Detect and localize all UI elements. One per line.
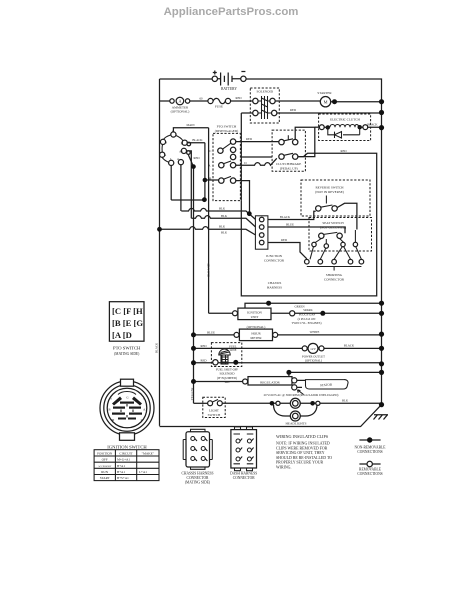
svg-text:60: 60 (200, 97, 204, 101)
svg-text:(MATING SIDE): (MATING SIDE) (114, 352, 140, 356)
svg-text:CLUTCH/BRAKE: CLUTCH/BRAKE (276, 162, 301, 166)
svg-text:CHASSIS HARNESS: CHASSIS HARNESS (181, 472, 213, 476)
svg-text:"MAKE": "MAKE" (142, 452, 155, 456)
svg-text:BLUE: BLUE (286, 222, 294, 226)
svg-text:RED: RED (290, 108, 297, 112)
svg-text:OFF: OFF (102, 458, 108, 462)
svg-text:B: B (165, 141, 167, 145)
svg-text:PLUGS GAP: PLUGS GAP (299, 312, 316, 316)
svg-text:SHOULD BE RE-INSTALLED TO: SHOULD BE RE-INSTALLED TO (276, 456, 332, 460)
svg-text:START: START (100, 476, 110, 480)
svg-text:NON-REMOVABLE: NON-REMOVABLE (355, 445, 387, 449)
svg-text:RED: RED (236, 96, 243, 100)
svg-text:LIGHT: LIGHT (209, 409, 219, 413)
svg-text:HEADLIGHTS: HEADLIGHTS (286, 422, 307, 426)
svg-text:SPARK: SPARK (303, 308, 313, 312)
svg-text:B: B (108, 408, 110, 412)
svg-text:DASH HARNESS: DASH HARNESS (230, 472, 257, 476)
svg-text:REVERSE SWITCH: REVERSE SWITCH (315, 186, 344, 190)
svg-text:A: A (178, 99, 181, 104)
svg-text:ACCESSORY: ACCESSORY (98, 465, 112, 468)
svg-text:(OPTIONAL): (OPTIONAL) (171, 110, 190, 114)
svg-text:BLACK: BLACK (155, 342, 159, 353)
svg-text:CONNECTOR: CONNECTOR (233, 476, 256, 480)
svg-text:CONNECTOR: CONNECTOR (324, 277, 345, 281)
svg-text:CLIPS WERE REMOVED FOR: CLIPS WERE REMOVED FOR (276, 446, 328, 450)
svg-text:UNIT: UNIT (251, 315, 259, 319)
svg-text:M: M (181, 141, 184, 145)
svg-text:[A [D: [A [D (112, 330, 132, 340)
svg-text:HARNESS: HARNESS (267, 286, 282, 290)
svg-text:12V: 12V (310, 347, 316, 351)
svg-text:WIRING INSULATED CLIPS: WIRING INSULATED CLIPS (276, 434, 329, 439)
svg-text:BLK WHT: BLK WHT (207, 263, 211, 277)
svg-text:SHORTING: SHORTING (326, 273, 343, 277)
svg-text:JUNCTION: JUNCTION (266, 254, 283, 258)
svg-text:YELLOW: YELLOW (190, 388, 194, 401)
svg-text:ELECTRIC CLUTCH: ELECTRIC CLUTCH (330, 117, 360, 121)
svg-text:BLK: BLK (221, 230, 228, 234)
svg-text:CONNECTIONS: CONNECTIONS (357, 472, 382, 476)
svg-text:[B [E [G: [B [E [G (112, 318, 143, 328)
svg-text:CIRCUIT: CIRCUIT (119, 452, 132, 456)
svg-text:(OPTIONAL): (OPTIONAL) (305, 359, 322, 363)
svg-text:POSITION: POSITION (97, 452, 113, 456)
svg-text:[C [F [H: [C [F [H (112, 306, 143, 316)
svg-text:RED: RED (201, 358, 208, 362)
svg-text:B+A1: B+A1 (117, 470, 125, 474)
svg-text:REMOVABLE: REMOVABLE (359, 468, 382, 472)
svg-text:RED: RED (281, 238, 288, 242)
svg-text:L+A1: L+A1 (139, 470, 147, 474)
svg-text:(DISENGAGED): (DISENGAGED) (215, 129, 238, 133)
svg-text:WIRING.: WIRING. (276, 466, 291, 470)
svg-text:SEAT SWITCH: SEAT SWITCH (322, 221, 344, 225)
svg-text:PTO SWITCH: PTO SWITCH (113, 346, 141, 351)
svg-text:SWITCH: SWITCH (208, 413, 221, 417)
svg-text:STARTER: STARTER (317, 91, 332, 95)
svg-text:TWIN CYL. ENGINES): TWIN CYL. ENGINES) (292, 321, 322, 325)
svg-text:PROPERLY SECURE YOUR: PROPERLY SECURE YOUR (276, 461, 324, 465)
svg-text:(MATING SIDE): (MATING SIDE) (185, 481, 211, 485)
svg-text:STATOR: STATOR (320, 383, 333, 388)
svg-text:RED: RED (246, 137, 253, 141)
svg-text:CHASSIS: CHASSIS (268, 281, 282, 285)
svg-text:NOTE: IF WIRING INSULATED: NOTE: IF WIRING INSULATED (276, 442, 330, 446)
svg-text:BLK: BLK (221, 214, 228, 218)
svg-text:REGULATOR: REGULATOR (260, 380, 280, 384)
svg-text:IGNITION: IGNITION (247, 310, 262, 314)
svg-text:B+A1: B+A1 (117, 464, 125, 468)
svg-text:MAIN: MAIN (187, 123, 196, 127)
svg-text:M+G+A1: M+G+A1 (117, 458, 130, 462)
svg-text:CONNECTOR: CONNECTOR (264, 259, 285, 263)
svg-text:A1: A1 (143, 408, 147, 412)
svg-text:L: L (170, 157, 172, 161)
svg-text:RUN: RUN (101, 470, 109, 474)
svg-text:M: M (112, 418, 115, 422)
svg-text:BLK: BLK (219, 225, 226, 229)
svg-text:CONNECTIONS: CONNECTIONS (357, 450, 382, 454)
svg-text:BLACK: BLACK (192, 138, 203, 142)
svg-text:L: L (141, 418, 143, 422)
svg-text:(NOT IN REVERSE): (NOT IN REVERSE) (315, 190, 344, 194)
svg-text:BLUE: BLUE (207, 330, 215, 334)
svg-text:AppliancePartsPros.com: AppliancePartsPros.com (164, 6, 299, 18)
svg-text:RED: RED (341, 149, 348, 153)
svg-text:BLACK: BLACK (344, 343, 355, 347)
svg-text:RED: RED (194, 156, 201, 160)
svg-text:A1: A1 (179, 149, 183, 153)
svg-text:M: M (323, 100, 327, 105)
svg-text:20 VOLTS AC @ 3600 RPM (REGULA: 20 VOLTS AC @ 3600 RPM (REGULATOR UNPLUG… (264, 393, 339, 397)
svg-text:(2 PLUGS ON: (2 PLUGS ON (298, 317, 317, 321)
svg-text:BLK: BLK (342, 399, 349, 403)
svg-text:BLACK: BLACK (280, 215, 291, 219)
svg-text:IGNITION SWITCH: IGNITION SWITCH (107, 444, 147, 449)
svg-text:B+S+A1: B+S+A1 (117, 476, 129, 480)
svg-text:(PEDAL UP): (PEDAL UP) (280, 167, 298, 171)
svg-text:METER: METER (250, 336, 262, 340)
svg-text:RED: RED (201, 344, 208, 348)
svg-text:BATTERY: BATTERY (221, 87, 237, 91)
svg-text:CONNECTOR: CONNECTOR (187, 476, 210, 480)
svg-text:FUSE: FUSE (215, 105, 223, 109)
svg-text:PTO SWITCH: PTO SWITCH (217, 124, 237, 128)
svg-text:(NOT OCCUPIED): (NOT OCCUPIED) (320, 226, 346, 230)
svg-text:BLACK: BLACK (367, 122, 378, 126)
svg-text:WHITE: WHITE (310, 330, 320, 334)
svg-text:BLK: BLK (219, 207, 226, 211)
svg-text:HOUR: HOUR (251, 331, 261, 335)
svg-text:SOLENOID: SOLENOID (257, 90, 274, 94)
